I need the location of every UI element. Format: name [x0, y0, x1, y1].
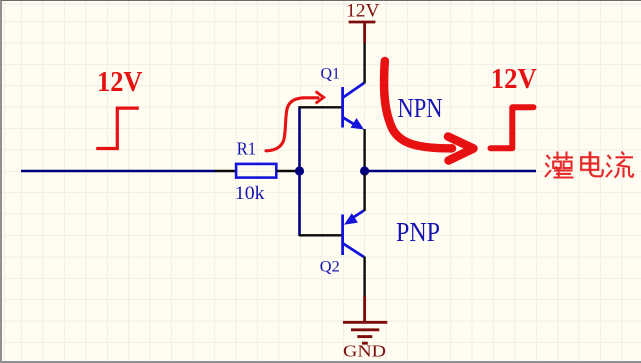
wire Q2 collector down [363, 257, 365, 298]
transistor Q1 [343, 83, 364, 130]
annotation sink-current text: glyph dian [581, 152, 603, 177]
ground [343, 322, 387, 343]
svg-text:PNP: PNP [396, 217, 440, 247]
svg-text:10k: 10k [235, 184, 266, 204]
ground stub [363, 296, 366, 322]
wire node to Q2 emitter [363, 174, 365, 211]
wire output right [369, 170, 536, 173]
transistor Q2 [343, 211, 364, 258]
node junction left [295, 166, 304, 175]
svg-text:Q1: Q1 [321, 66, 341, 83]
resistor R1 [236, 164, 276, 178]
svg-text:12V: 12V [491, 63, 537, 95]
annotation sink-current text: glyph guan [545, 152, 574, 179]
power 12V top symbol [349, 22, 376, 43]
annotation arrow into Q1 base [266, 98, 318, 151]
wire vertical base bus [298, 106, 301, 236]
svg-text:NPN: NPN [398, 93, 443, 123]
svg-text:12V: 12V [97, 66, 143, 98]
wire main left horizontal [21, 170, 215, 173]
annotation sink-current text: glyph liu [606, 152, 634, 178]
annotation step waveform left [96, 108, 139, 148]
svg-text:GND: GND [343, 342, 386, 361]
wire Q1 emitter to node [363, 129, 365, 168]
wire Q2 base lead [299, 234, 342, 236]
svg-text:R1: R1 [237, 139, 257, 159]
svg-text:Q2: Q2 [320, 259, 340, 276]
wire Q1 base lead [299, 106, 342, 108]
svg-text:12V: 12V [346, 1, 380, 22]
wire Q1 collector [363, 42, 365, 84]
node junction right [360, 166, 369, 175]
wire resistor R1 left pin [215, 170, 236, 172]
annotation big current arrow shaft [384, 61, 452, 148]
wire resistor R1 right pin [277, 170, 297, 172]
annotation step waveform right [491, 107, 534, 148]
annotation big current arrow chevron [448, 137, 474, 161]
